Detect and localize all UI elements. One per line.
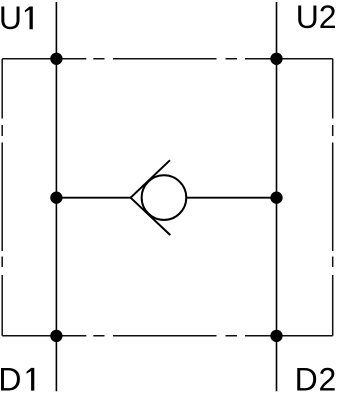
port line U1-D1 (left vertical wire) xyxy=(55,2,57,391)
check valve CV1 seat lower arm xyxy=(131,198,171,235)
wire: middle line left segment xyxy=(56,197,130,199)
enclosure top edge (chain line) xyxy=(2,58,333,60)
svg-text:D2: D2 xyxy=(295,362,337,398)
enclosure left edge (chain line) xyxy=(1,59,3,336)
port line U2-D2 (right vertical wire) xyxy=(276,2,278,391)
junction dot: left line to valve xyxy=(50,192,62,204)
junction dot: D1 at enclosure bottom xyxy=(50,330,62,342)
junction dot: right line to valve xyxy=(270,192,282,204)
enclosure right edge (chain line) xyxy=(332,59,334,336)
svg-text:D: D xyxy=(0,362,22,398)
svg-text:U2: U2 xyxy=(296,0,337,35)
svg-text:U: U xyxy=(0,0,22,36)
junction dot: D2 at enclosure bottom xyxy=(270,330,282,342)
wire: middle line right segment xyxy=(187,197,277,199)
check valve CV1 seat upper arm xyxy=(131,160,170,198)
enclosure bottom edge (chain line) xyxy=(2,335,333,337)
junction dot: U2 at enclosure top xyxy=(270,53,282,65)
check valve CV1 ball (circle) xyxy=(142,175,187,220)
junction dot: U1 at enclosure top xyxy=(50,53,62,65)
